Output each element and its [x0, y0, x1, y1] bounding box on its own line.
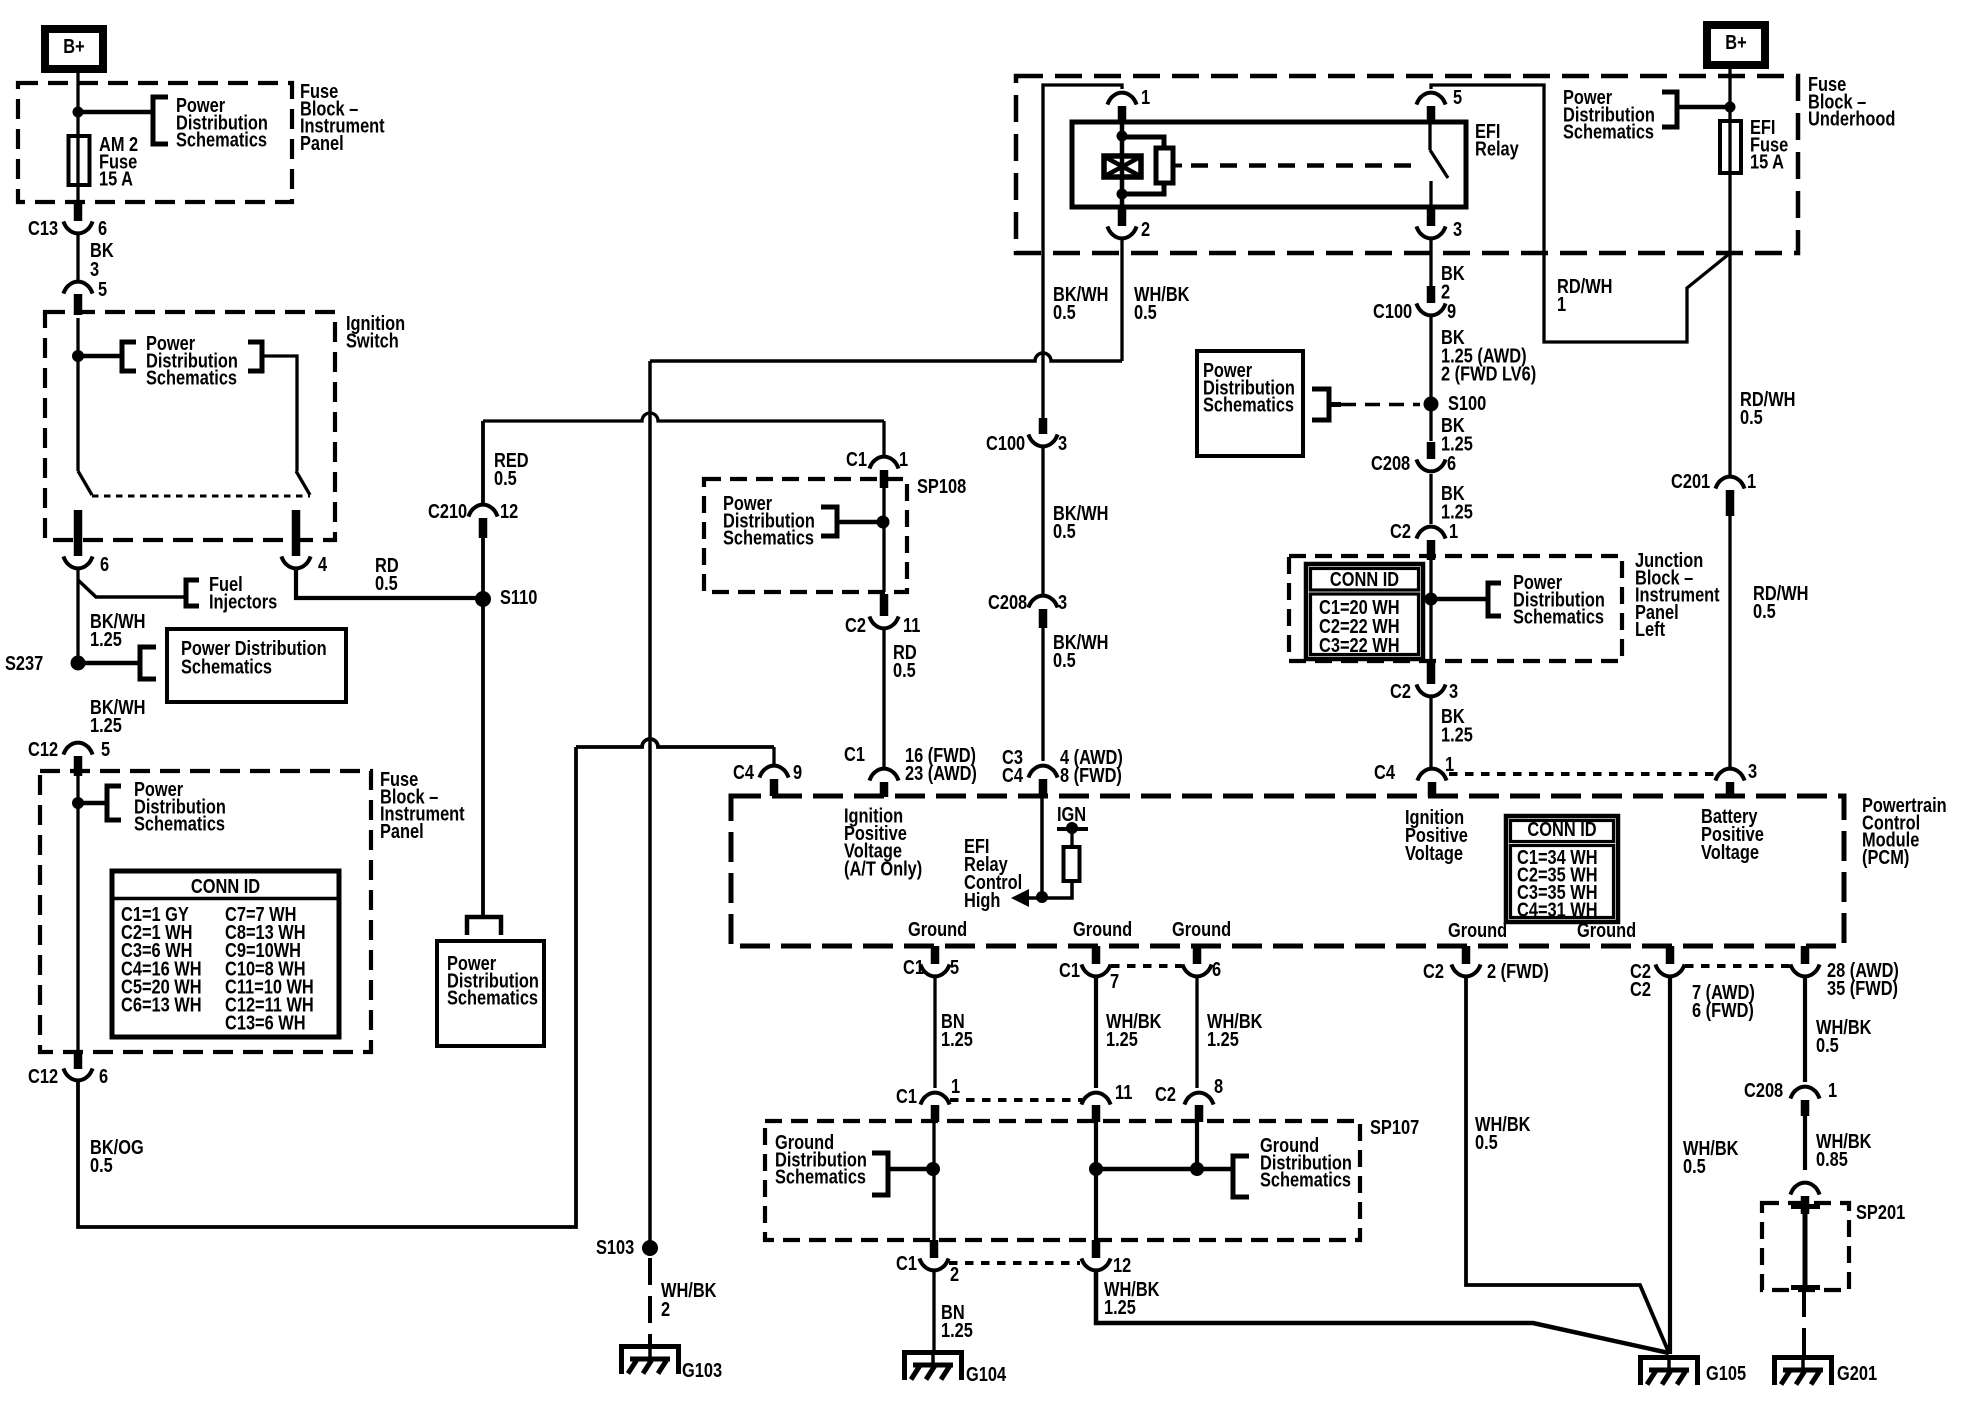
label pin 8 (gnd): [1214, 1074, 1223, 1097]
wire WH/BK horizontal to x650: [650, 353, 1122, 361]
pin stub C2 pin 2FWD: [1462, 946, 1471, 964]
wire EFI fuse down: [1728, 173, 1731, 253]
dashed box Fuse Block - Instrument Panel (top): [18, 83, 292, 202]
svg-text:6: 6: [98, 216, 107, 239]
node relay coil bottom: [1117, 189, 1128, 200]
label Ground (C1-7): [1073, 917, 1132, 940]
svg-text:6 (FWD): 6 (FWD): [1692, 998, 1754, 1021]
wire C208-3 to PCM: [1041, 628, 1044, 761]
wire through junction block: [1429, 560, 1432, 662]
connector C201 pin 1: [1715, 477, 1744, 489]
svg-text:1: 1: [1141, 85, 1150, 108]
label C1 (pin 5): [903, 955, 924, 978]
label WH/BK 0.85: [1816, 1129, 1872, 1170]
wire B+ right down: [1728, 65, 1731, 121]
label G201: [1837, 1361, 1877, 1384]
pin stub C12 pin 6: [74, 1052, 83, 1069]
svg-text:2: 2: [661, 1297, 670, 1320]
label AM 2 Fuse 15 A: [99, 132, 138, 190]
svg-text:6: 6: [100, 552, 109, 575]
label Ground Distribution Schematics (right): [1260, 1133, 1352, 1191]
wire through SP107 (pin11): [1094, 1122, 1098, 1240]
relay actuator: [1156, 148, 1182, 183]
connector pin 6 (PCM): [1182, 964, 1211, 976]
label C100 (pin 3): [986, 431, 1025, 454]
label C2 (pin 2FWD): [1423, 959, 1444, 982]
label G103: [682, 1358, 722, 1381]
label BK/WH 0.5 (C208-PCM): [1053, 630, 1108, 671]
label pin 3 of C100: [1058, 431, 1067, 454]
wire WH/BK 0.5 (2FWD): [1466, 978, 1669, 1353]
box Power Distribution Schematics (S100): [1197, 351, 1303, 456]
pin stub C3/C4 pin 4/8: [1039, 779, 1048, 797]
wire C210 to S110: [481, 538, 485, 599]
svg-text:9: 9: [1447, 299, 1456, 322]
svg-text:5: 5: [1453, 85, 1462, 108]
svg-text:C208: C208: [1744, 1078, 1783, 1101]
svg-text:7: 7: [1110, 969, 1119, 992]
connector C100 pin 9: [1416, 303, 1445, 315]
label C208 (pin 1): [1744, 1078, 1783, 1101]
svg-text:C208: C208: [1371, 451, 1410, 474]
label pin 11 (gnd): [1115, 1080, 1132, 1103]
dashed box Junction Block - Instrument Panel Left: [1289, 556, 1622, 661]
svg-text:C4: C4: [1002, 763, 1024, 786]
connector C2 pin 1 (junction block): [1416, 527, 1445, 539]
svg-text:6: 6: [1212, 957, 1221, 980]
label BK 3: [90, 238, 114, 280]
connector pin 28/35: [1790, 964, 1819, 976]
wire resistor to relay control: [1046, 881, 1072, 898]
pin stub C2 pin 8: [1195, 1105, 1204, 1122]
svg-text:Ground: Ground: [1073, 917, 1132, 940]
label Power Distribution Schematics (junction block): [1513, 570, 1605, 628]
wire junction to bracket (junction block): [1431, 597, 1488, 602]
label Power Distribution Schematics (ignition switch): [146, 331, 238, 389]
node junction SP107 right: [1190, 1162, 1204, 1176]
svg-text:C2: C2: [1390, 679, 1411, 702]
svg-text:0.5: 0.5: [494, 466, 517, 489]
svg-text:3: 3: [1058, 431, 1067, 454]
table rows CONN ID left column: [121, 902, 202, 1015]
pin stub PCM pin 3: [1726, 782, 1735, 797]
label pin 6 of C208: [1447, 451, 1456, 474]
wire junction to bracket (fuse block 2): [78, 801, 107, 806]
svg-text:Schematics: Schematics: [176, 128, 267, 151]
connector C3/C4 pin 4/8: [1028, 766, 1057, 778]
wire through SP107 (C1-1): [932, 1122, 935, 1240]
wire WH/BK 0.85: [1803, 1116, 1807, 1170]
bracket above power distribution box (S110): [467, 917, 501, 935]
connector C2C2 pin 7/6: [1655, 964, 1684, 976]
label BK/WH 0.5 (relay pin2 wire): [1053, 282, 1108, 323]
svg-text:1: 1: [1557, 292, 1566, 315]
label C1 (pin 2): [896, 1251, 917, 1274]
label C2 (pin 1): [1390, 519, 1411, 542]
svg-text:Ground: Ground: [908, 917, 967, 940]
svg-text:C3=22 WH: C3=22 WH: [1319, 633, 1400, 656]
label pin 3 of C208: [1058, 590, 1067, 613]
label S110: [500, 585, 537, 608]
svg-text:G104: G104: [966, 1362, 1007, 1385]
pin stub C208 pin 6: [1427, 442, 1436, 459]
label RD/WH 0.5 (lower): [1753, 581, 1808, 622]
svg-text:0.5: 0.5: [375, 571, 398, 594]
label WH/BK 0.5 (2FWD): [1475, 1112, 1531, 1153]
svg-text:1.25: 1.25: [1207, 1027, 1239, 1050]
svg-text:SP107: SP107: [1370, 1115, 1419, 1138]
svg-text:3: 3: [1453, 217, 1462, 240]
ground G104: [905, 1350, 962, 1380]
label BN 1.25 (lower): [941, 1300, 973, 1341]
box Power Distribution Schematics (S237): [167, 629, 346, 702]
svg-text:C1: C1: [896, 1084, 917, 1107]
label C2 (pin 3): [1390, 679, 1411, 702]
dashed box Fuse Block - Underhood: [1016, 76, 1798, 253]
label pin 1 of C4: [1445, 752, 1454, 775]
connector relay pin 5: [1416, 93, 1445, 105]
svg-text:12: 12: [1113, 1253, 1131, 1276]
svg-text:C2: C2: [1630, 977, 1651, 1000]
svg-text:C12: C12: [28, 1064, 58, 1087]
wire relay coil right loop: [1122, 137, 1164, 150]
power symbol B+ (left): [45, 29, 103, 69]
label pin 4 (AWD): [1060, 745, 1123, 768]
wire relay coil vertical: [1120, 122, 1125, 207]
connector relay pin 2: [1107, 226, 1136, 238]
power symbol B+ (right): [1707, 25, 1765, 65]
svg-text:35 (FWD): 35 (FWD): [1827, 976, 1898, 999]
pin stub C1 pin 16/23: [880, 782, 889, 797]
dotted link C2C2 to 28/35: [1685, 964, 1790, 968]
connector C208 pin 6: [1416, 459, 1445, 471]
wire into ignition switch: [76, 318, 79, 356]
svg-text:S110: S110: [500, 585, 537, 608]
svg-text:C1: C1: [846, 447, 867, 470]
pin stub C100 pin 9: [1427, 286, 1436, 303]
svg-text:Panel: Panel: [380, 819, 424, 842]
table rows CONN ID right column: [225, 902, 314, 1034]
label C208 (pin 6): [1371, 451, 1410, 474]
bracket Power Distribution Schematics (S237): [140, 647, 156, 679]
svg-text:12: 12: [500, 499, 518, 522]
svg-text:IGN: IGN: [1057, 802, 1086, 825]
wire relay pin2 down to corner: [1120, 240, 1123, 361]
pin stub pin 11: [1092, 1105, 1101, 1122]
dotted link C1-1 to pin 11: [950, 1098, 1082, 1102]
svg-text:C6=13 WH: C6=13 WH: [121, 993, 202, 1016]
label Power Distribution Schematics (S237): [181, 636, 327, 677]
label C4 (pin 9): [733, 760, 755, 783]
label C1 (PCM A/T): [844, 742, 865, 765]
label RD/WH 1: [1557, 274, 1612, 315]
label WH/BK 0.5 (relay coil gnd): [1134, 282, 1190, 323]
connector C4 pin 9: [759, 766, 788, 778]
label C201: [1671, 469, 1710, 492]
svg-text:2: 2: [950, 1262, 959, 1285]
connector C2 pin 8 (ground dist): [1184, 1093, 1213, 1105]
svg-text:1: 1: [899, 447, 908, 470]
label C1 (SP108): [846, 447, 867, 470]
wire actuator bottom loop: [1122, 183, 1164, 194]
svg-text:0.5: 0.5: [1683, 1154, 1706, 1177]
pin stub pin 6 (PCM): [1193, 946, 1202, 964]
label C2 (pin 8): [1155, 1082, 1176, 1105]
wire through SP108: [882, 487, 885, 592]
connector C12 pin 5: [63, 743, 92, 755]
label S237: [5, 651, 43, 674]
dashed wire SP201 to G201: [1802, 1290, 1806, 1355]
label WH/BK 0.5 (28/35): [1816, 1015, 1872, 1056]
splice bar SP201: [1791, 1204, 1820, 1290]
label pin 7 (AWD): [1692, 980, 1755, 1003]
label pin 1 of C201: [1747, 469, 1756, 492]
node relay coil top: [1117, 131, 1128, 142]
label C3: [1002, 745, 1023, 768]
node IGN: [1066, 822, 1078, 834]
svg-text:C2: C2: [1390, 519, 1411, 542]
svg-text:5: 5: [101, 737, 110, 760]
label BK/OG 0.5: [90, 1135, 144, 1176]
svg-text:6: 6: [1447, 451, 1456, 474]
node junction (fuse block 2): [72, 797, 84, 809]
svg-text:0.5: 0.5: [1053, 648, 1076, 671]
svg-text:SP201: SP201: [1856, 1200, 1905, 1223]
node junction SP107 left: [926, 1162, 940, 1176]
connector C2 pin 3: [1416, 684, 1445, 696]
label BK/WH 0.5 (C100-C208): [1053, 501, 1108, 542]
label relay pin 2: [1141, 217, 1150, 240]
label Ground (28/35): [1577, 918, 1636, 941]
wire junction to junction (SP107): [1096, 1167, 1233, 1172]
svg-text:Schematics: Schematics: [447, 986, 538, 1009]
label RD 0.5: [375, 553, 399, 594]
label EFI Relay: [1475, 119, 1519, 159]
table rows CONN ID PCM: [1517, 845, 1598, 920]
wire BN 1.25 lower: [932, 1272, 935, 1350]
label Ignition Positive Voltage (A/T Only): [844, 804, 922, 880]
label relay pin 3: [1453, 217, 1462, 240]
label relay pin 1: [1141, 85, 1150, 108]
bracket right (ignition switch): [248, 342, 262, 371]
svg-text:2: 2: [1141, 217, 1150, 240]
wire corner down to C4 pin 9: [772, 747, 775, 764]
label pin 3 of C2: [1449, 679, 1458, 702]
svg-text:(PCM): (PCM): [1862, 845, 1909, 868]
label Fuel Injectors: [209, 572, 277, 612]
connector C208 pin 3: [1028, 596, 1057, 608]
svg-text:6: 6: [99, 1064, 108, 1087]
label Ignition Switch: [346, 311, 405, 351]
wire S110 down to power distribution box: [481, 599, 485, 917]
bracket Ground Distribution Schematics (left): [872, 1153, 888, 1195]
svg-text:G201: G201: [1837, 1361, 1877, 1384]
label pin 12: [1113, 1253, 1131, 1276]
wire C2-11 to C1-16: [882, 630, 885, 767]
pin stub ignition switch pin 4: [292, 510, 301, 556]
label pin 5: [98, 277, 107, 300]
connector C2 pin 2FWD: [1451, 964, 1480, 976]
wire junction to bracket (ignition switch): [78, 354, 122, 359]
node S110: [475, 591, 491, 607]
svg-text:Injectors: Injectors: [209, 590, 277, 613]
svg-text:0.5: 0.5: [893, 658, 916, 681]
label pin 16 (FWD): [905, 743, 976, 766]
arrow EFI relay control high: [1011, 889, 1029, 907]
svg-text:C2: C2: [1155, 1082, 1176, 1105]
label Fuse Block - Instrument Panel (top): [300, 79, 385, 154]
dashed box Powertrain Control Module PCM: [731, 796, 1844, 946]
wire pin6 down: [76, 570, 79, 663]
svg-text:Schematics: Schematics: [1260, 1168, 1351, 1191]
label Ground (C1-5): [908, 917, 967, 940]
label BK 1.25 (C208-C2): [1441, 481, 1473, 522]
node relay control junction: [1036, 891, 1048, 903]
connector C1 pin 7: [1081, 964, 1110, 976]
wire inside fuse block 2: [76, 776, 79, 1052]
label C2 C2: [1630, 959, 1651, 1000]
connector C1 pin 16/23: [869, 769, 898, 781]
dashed box Ignition Switch: [45, 312, 335, 540]
svg-text:G103: G103: [682, 1358, 722, 1381]
wire EFI relay control high: [1029, 796, 1042, 898]
dashed box SP201: [1762, 1203, 1849, 1290]
svg-text:1: 1: [1747, 469, 1756, 492]
label relay pin 5: [1453, 85, 1462, 108]
svg-text:5: 5: [98, 277, 107, 300]
bracket Power Distribution Schematics (fuse block top): [153, 97, 168, 144]
connector ignition pin 6: [63, 556, 92, 568]
svg-text:Schematics: Schematics: [181, 655, 272, 678]
connector relay pin 1: [1107, 93, 1136, 105]
svg-text:Schematics: Schematics: [1203, 393, 1294, 416]
svg-text:5: 5: [950, 955, 959, 978]
svg-text:8 (FWD): 8 (FWD): [1060, 763, 1122, 786]
connector C100 pin 3: [1028, 434, 1057, 446]
svg-text:C2: C2: [845, 613, 866, 636]
label Battery Positive Voltage: [1701, 804, 1764, 863]
svg-text:1.25: 1.25: [90, 713, 122, 736]
label C2 (pin 11): [845, 613, 866, 636]
ground G201: [1775, 1355, 1832, 1385]
svg-text:0.5: 0.5: [1053, 519, 1076, 542]
relay switch blade: [1430, 150, 1448, 178]
wire BK/OG horizontal to C4 pin 9: [576, 739, 774, 747]
wire bracket to junction (SP107 left): [888, 1167, 933, 1172]
wire S237 to bracket: [78, 661, 140, 666]
svg-text:0.5: 0.5: [1753, 599, 1776, 622]
svg-text:Ground: Ground: [1172, 917, 1231, 940]
svg-text:G105: G105: [1706, 1361, 1746, 1384]
label C100 (pin 9): [1373, 299, 1412, 322]
pin stub C1 pin 5: [931, 946, 940, 964]
wire relay pin 5 to RD/WH 1: [1431, 85, 1729, 342]
wire BK/WH below relay box: [1041, 253, 1044, 418]
svg-text:0.5: 0.5: [1134, 300, 1157, 323]
dashed box SP108: [704, 479, 907, 592]
fuse EFI 15A: [1720, 121, 1741, 173]
wire corner down to C210: [481, 421, 485, 503]
svg-text:1.25: 1.25: [941, 1027, 973, 1050]
label RED 0.5: [494, 448, 529, 489]
dashed wire bracket to S100: [1341, 403, 1420, 407]
svg-text:C208: C208: [988, 590, 1027, 613]
connector C12 pin 6: [63, 1068, 92, 1080]
svg-text:C100: C100: [986, 431, 1025, 454]
pin stub SP201: [1801, 1196, 1810, 1214]
label pin 6 (FWD): [1692, 998, 1754, 1021]
wire C100-3 to C208-3: [1041, 448, 1044, 594]
pin stub C2 pin 1: [1427, 540, 1436, 560]
wire relay switch lower contact: [1429, 181, 1432, 207]
svg-text:1.25: 1.25: [1106, 1027, 1138, 1050]
svg-text:Schematics: Schematics: [146, 366, 237, 389]
svg-text:S237: S237: [5, 651, 43, 674]
label Power Distribution Schematics (S100): [1203, 358, 1295, 416]
label G105: [1706, 1361, 1746, 1384]
label Ground Distribution Schematics (left): [775, 1130, 867, 1188]
svg-text:C1: C1: [903, 955, 924, 978]
pin stub C208 pin 3: [1039, 609, 1048, 628]
label pin 7 of C1: [1110, 969, 1119, 992]
label Power Distribution Schematics (S110): [447, 951, 539, 1009]
svg-text:23 (AWD): 23 (AWD): [905, 761, 977, 784]
svg-text:Ground: Ground: [1448, 918, 1507, 941]
dashed box SP107: [765, 1121, 1360, 1240]
label pin 8 (FWD): [1060, 763, 1122, 786]
label Power Distribution Schematics (fuse block 2): [134, 777, 226, 835]
svg-text:2 (FWD): 2 (FWD): [1487, 959, 1549, 982]
label SP201: [1856, 1200, 1905, 1223]
svg-text:1: 1: [1828, 1078, 1837, 1101]
wire junction to bracket: [78, 110, 153, 115]
connector C210 pin 12: [468, 505, 497, 517]
svg-text:C210: C210: [428, 499, 467, 522]
bracket Fuel Injectors: [186, 580, 199, 606]
label pin 9: [793, 760, 802, 783]
label Ground (pin6): [1172, 917, 1231, 940]
label Ground (C2C2): [1448, 918, 1507, 941]
label pin 5 of C12: [101, 737, 110, 760]
connector C4 pin 1: [1417, 769, 1446, 781]
connector pin 11 (ground dist): [1081, 1093, 1110, 1105]
svg-text:4: 4: [318, 552, 328, 575]
wire WH/BK 0.5 (C2C2): [1668, 978, 1672, 1354]
svg-text:Left: Left: [1635, 618, 1665, 641]
svg-text:CONN ID: CONN ID: [1330, 567, 1399, 590]
node junction SP107 mid: [1089, 1162, 1103, 1176]
wire WH/BK 1.25 (pin7): [1094, 978, 1098, 1088]
connector relay pin 3: [1416, 226, 1445, 238]
table CONN ID (PCM): [1506, 816, 1618, 922]
pin stub relay pin 1: [1118, 106, 1127, 122]
wire fuse to connector C13: [76, 185, 79, 205]
pin stub pin 5: [74, 294, 83, 315]
label RD 0.5 (SP108): [893, 640, 917, 681]
svg-text:1.25: 1.25: [1104, 1295, 1136, 1318]
svg-text:8: 8: [1214, 1074, 1223, 1097]
svg-text:C100: C100: [1373, 299, 1412, 322]
svg-text:C12: C12: [28, 737, 58, 760]
svg-text:1.25: 1.25: [1441, 432, 1473, 455]
label S100: [1448, 391, 1486, 414]
dotted link C4-1 to pin 3: [1449, 772, 1716, 776]
label ignition pin 6: [100, 552, 109, 575]
bracket Power Distribution Schematics (SP108): [821, 507, 837, 536]
svg-text:Schematics: Schematics: [1563, 120, 1654, 143]
dotted switch link (ignition switch): [92, 495, 310, 498]
svg-text:Schematics: Schematics: [775, 1165, 866, 1188]
